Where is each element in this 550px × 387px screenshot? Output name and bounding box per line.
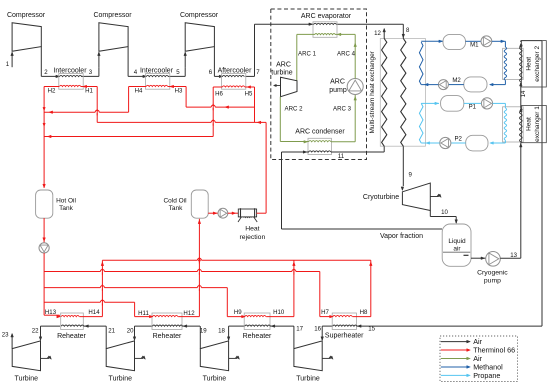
svg-text:23: 23 [2,331,9,338]
svg-text:ARC condenser: ARC condenser [295,128,345,135]
svg-text:10: 10 [441,209,448,216]
svg-text:H3: H3 [175,87,183,94]
svg-text:ARC 1: ARC 1 [298,51,317,58]
svg-text:Cryoturbine: Cryoturbine [363,194,399,201]
svg-text:rejection: rejection [240,234,266,241]
svg-text:H13: H13 [45,309,57,316]
svg-text:ARC 4: ARC 4 [337,51,356,58]
svg-text:Vapor fraction: Vapor fraction [380,233,423,240]
svg-text:Heat: Heat [526,57,533,71]
svg-text:H4: H4 [135,87,143,94]
svg-text:Intercooler: Intercooler [53,67,87,74]
svg-text:turbine: turbine [271,69,293,76]
svg-text:P1: P1 [469,104,477,111]
svg-text:Heat: Heat [245,225,259,232]
svg-text:Compressor: Compressor [93,12,132,19]
svg-text:Intercooler: Intercooler [140,67,174,74]
svg-text:Turbine: Turbine [203,376,227,383]
svg-text:Multi-stream heat exchanger: Multi-stream heat exchanger [369,50,376,133]
svg-text:14: 14 [520,90,527,97]
svg-text:H2: H2 [48,87,56,94]
svg-text:M1: M1 [470,42,479,49]
svg-text:11: 11 [338,153,345,160]
svg-text:16: 16 [314,326,321,333]
svg-text:12: 12 [374,30,381,37]
svg-text:Hot Oil: Hot Oil [56,197,76,204]
svg-text:Reheater: Reheater [153,333,182,340]
svg-text:Turbine: Turbine [15,376,39,383]
svg-text:Heat: Heat [526,117,533,131]
svg-text:exchanger 2: exchanger 2 [534,46,541,82]
svg-text:Cold Oil: Cold Oil [163,197,187,204]
svg-text:18: 18 [218,327,225,334]
svg-text:H1: H1 [85,87,93,94]
svg-text:H11: H11 [138,310,149,317]
svg-text:22: 22 [32,327,39,334]
svg-text:Cryogenic: Cryogenic [477,270,508,277]
svg-text:H10: H10 [273,309,285,316]
svg-text:15: 15 [368,326,375,333]
svg-text:H5: H5 [245,91,253,98]
svg-text:H6: H6 [215,91,223,98]
svg-text:20: 20 [127,327,134,334]
svg-text:ARC: ARC [276,61,291,68]
svg-text:17: 17 [296,326,303,333]
svg-text:ARC 2: ARC 2 [285,106,304,113]
svg-text:pump: pump [484,278,501,285]
svg-text:Reheater: Reheater [57,333,86,340]
svg-text:Compressor: Compressor [7,12,46,19]
svg-text:Propane: Propane [473,371,500,380]
svg-text:Reheater: Reheater [243,333,272,340]
svg-text:ARC: ARC [330,79,345,86]
svg-text:Aftercooler: Aftercooler [218,67,253,74]
svg-text:H14: H14 [88,309,100,316]
svg-text:exchanger 1: exchanger 1 [534,106,541,142]
svg-text:Turbine: Turbine [109,376,133,383]
svg-text:Tank: Tank [59,205,73,212]
svg-text:pump: pump [329,87,347,94]
svg-text:Liquid: Liquid [448,238,466,245]
svg-text:Tank: Tank [169,205,183,212]
svg-text:ARC 3: ARC 3 [333,106,352,113]
svg-text:Compressor: Compressor [180,12,219,19]
svg-text:Turbine: Turbine [296,376,320,383]
svg-text:P2: P2 [454,135,462,142]
svg-text:H9: H9 [234,309,242,316]
svg-text:M2: M2 [452,77,461,84]
svg-text:19: 19 [200,327,207,334]
svg-text:H7: H7 [321,309,329,316]
svg-text:H8: H8 [360,309,368,316]
svg-text:air: air [453,246,461,253]
svg-text:13: 13 [510,252,517,259]
svg-text:21: 21 [108,327,115,334]
svg-text:ARC evaporator: ARC evaporator [301,13,352,20]
svg-text:Superheater: Superheater [325,333,364,340]
svg-text:H12: H12 [183,310,195,317]
